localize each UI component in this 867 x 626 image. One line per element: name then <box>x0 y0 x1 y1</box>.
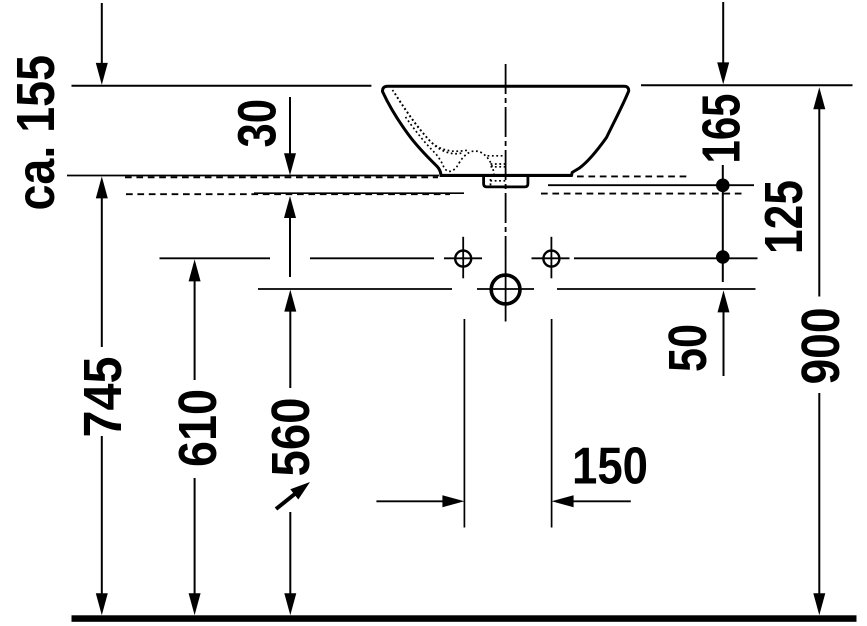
svg-text:610: 610 <box>168 389 228 467</box>
30 dim lower shaft <box>289 218 291 277</box>
basin dotted drain arch <box>459 151 494 175</box>
svg-text:900: 900 <box>791 308 851 385</box>
basin dotted channel line lower <box>491 166 507 168</box>
countertop hidden dashed line right <box>577 175 687 177</box>
rim reference line right segment <box>641 84 853 86</box>
basin inner dotted wall line 1 <box>393 90 470 151</box>
faucet hole line y=258 segment 2 <box>310 257 434 259</box>
30 dim down arrowhead <box>284 153 296 175</box>
150 dim left extension line <box>463 319 465 528</box>
165 dim down arrowhead <box>717 62 729 84</box>
svg-text:30: 30 <box>228 99 288 148</box>
countertop hidden dashed line left <box>125 176 438 178</box>
rim reference line left segment <box>72 85 372 87</box>
washbasin foot <box>484 176 528 187</box>
610 dim down arrowhead at floor <box>189 593 201 615</box>
900 dim upper shaft <box>818 109 820 297</box>
basin dotted channel line mid <box>491 163 507 165</box>
svg-text:150: 150 <box>572 438 648 496</box>
745 dim down arrowhead at floor <box>96 593 108 615</box>
drain line y=289 segment 2 (crosshair) <box>477 288 534 290</box>
900 dim lower shaft <box>818 393 820 594</box>
counter underside dashed line right <box>541 193 745 195</box>
745 dim upper shaft <box>101 198 103 347</box>
basin dotted channel line upper <box>488 155 507 157</box>
faucet hole line y=258 segment 5 <box>574 257 758 259</box>
30 dim upper shaft <box>289 97 291 155</box>
svg-text:ca. 155: ca. 155 <box>6 55 66 211</box>
svg-text:745: 745 <box>73 357 133 438</box>
30 dim up arrowhead <box>284 196 296 218</box>
drain line y=289 segment 3 <box>557 288 756 290</box>
745 dim lower shaft <box>101 436 103 594</box>
610 dim lower shaft <box>194 478 196 594</box>
right faucet hole circle <box>543 251 559 267</box>
560 dim up arrowhead <box>284 290 296 312</box>
560 dim down arrowhead at floor <box>284 593 296 615</box>
50 dim shaft <box>723 312 725 376</box>
countertop solid line left <box>67 175 439 177</box>
right faucet crosshair vertical <box>550 237 552 278</box>
ca.155 dim top shaft <box>101 3 103 64</box>
chain dot at faucet level <box>716 250 730 264</box>
900 dim down arrowhead at floor <box>813 593 825 615</box>
drain line y=289 segment 1 <box>258 288 452 290</box>
900 dim up arrowhead <box>813 87 825 109</box>
drain hole circle <box>491 275 520 304</box>
floor line <box>72 615 857 622</box>
drain crosshair vertical <box>505 255 507 322</box>
counter underside solid overlay left <box>254 192 464 194</box>
165 dim top shaft <box>722 2 724 64</box>
745 dim up arrowhead <box>96 176 108 198</box>
left faucet hole circle <box>455 251 471 267</box>
560 diagonal leader arrowhead <box>290 482 310 500</box>
left faucet crosshair vertical <box>462 237 464 278</box>
150 dim left-pointing arrowhead <box>552 495 574 507</box>
foot dotted drain vertical <box>490 179 492 185</box>
washbasin bottom edge <box>440 174 572 177</box>
basin inner dotted wall line 3 with U-trap <box>406 117 460 171</box>
svg-text:125: 125 <box>754 180 814 254</box>
150 dim right-pointing arrowhead <box>442 495 464 507</box>
560 dim upper shaft <box>289 311 291 388</box>
vertical centerline dash-dot <box>505 64 507 255</box>
165 level reference line <box>548 184 754 186</box>
svg-text:50: 50 <box>658 324 718 372</box>
150 dim right extension line <box>551 319 553 528</box>
faucet hole line y=258 segment 4 (right crosshair) <box>532 257 570 259</box>
610 dim up arrowhead <box>189 259 201 281</box>
165-125 chain shaft <box>722 165 724 282</box>
150 dim left shaft <box>376 500 443 502</box>
basin inner dotted wall line 2 <box>395 94 462 154</box>
chain dot at 165 level <box>716 179 730 193</box>
svg-text:165: 165 <box>692 94 752 164</box>
610 dim upper shaft <box>194 281 196 380</box>
faucet hole line y=258 segment 3 (left crosshair) <box>444 257 482 259</box>
counter underside dashed line left <box>126 193 450 195</box>
150 dim right shaft <box>573 500 631 502</box>
50 dim up arrowhead <box>718 290 730 312</box>
ca.155 dim down arrowhead <box>96 63 108 85</box>
washbasin outline <box>382 86 628 175</box>
foot dotted drain horizontal <box>490 180 505 182</box>
svg-text:560: 560 <box>261 398 321 477</box>
560 dim lower shaft <box>289 512 291 594</box>
560 diagonal leader arrow shaft <box>276 493 296 509</box>
faucet hole line y=258 segment 1 <box>160 257 271 259</box>
